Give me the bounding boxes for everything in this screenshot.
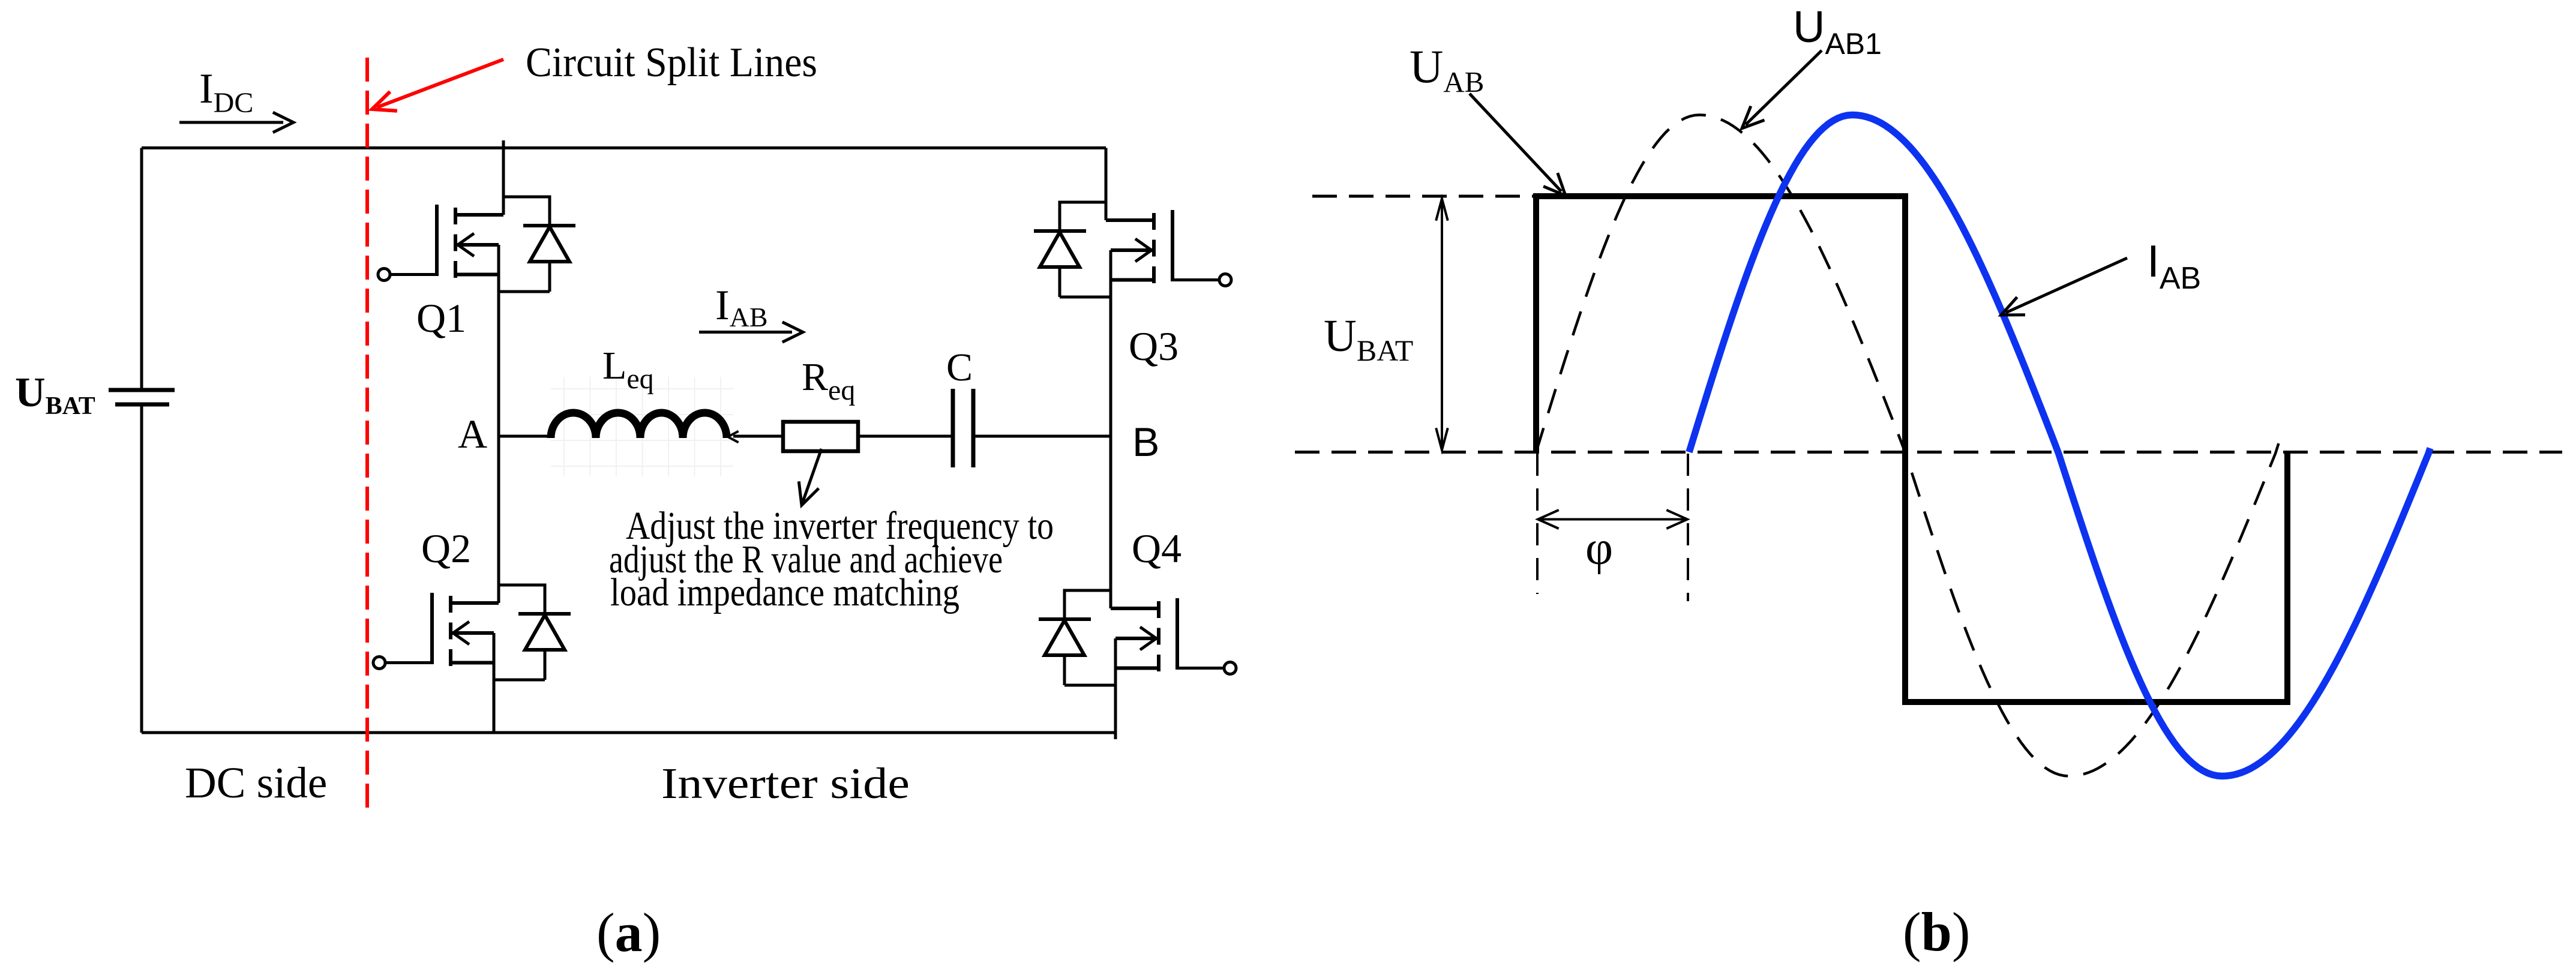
U_BAT measure arrow xyxy=(1441,202,1443,447)
wire top rail xyxy=(142,146,1106,149)
current sine I_AB (blue) xyxy=(1689,115,2430,776)
svg-text:Q4: Q4 xyxy=(1132,526,1181,571)
svg-text:B: B xyxy=(1132,419,1159,465)
svg-text:Circuit Split Lines: Circuit Split Lines xyxy=(526,40,817,86)
svg-text:Q2: Q2 xyxy=(421,526,471,571)
wire inductor to resistor xyxy=(733,435,783,438)
svg-text:(a): (a) xyxy=(596,902,661,963)
svg-text:Q1: Q1 xyxy=(416,295,466,341)
transistor Q3 xyxy=(1034,202,1231,297)
svg-text:A: A xyxy=(458,411,487,457)
horizontal axis (dashed) xyxy=(1295,451,2562,454)
inductor L_eq xyxy=(551,413,727,438)
svg-text:Q3: Q3 xyxy=(1129,323,1178,369)
wire bottom rail xyxy=(142,731,1115,734)
svg-text:Inverter side: Inverter side xyxy=(661,759,910,808)
phi measure arrow xyxy=(1541,518,1684,521)
annotation arrow from resistor xyxy=(803,449,821,502)
I_AB callout arrow xyxy=(2006,258,2127,313)
wire left vertical (battery branch) xyxy=(140,148,143,733)
wire resistor to capacitor xyxy=(858,435,953,438)
capacitor C xyxy=(953,389,973,467)
svg-text:C: C xyxy=(946,346,973,389)
faint grid behind inductor xyxy=(551,377,733,476)
square wave U_AB xyxy=(1536,196,2287,702)
wire capacitor to node B xyxy=(973,435,1111,438)
U_AB callout arrow xyxy=(1470,94,1561,191)
battery U_BAT xyxy=(109,390,175,404)
transistor Q1 xyxy=(378,197,575,292)
arrow I_AB (circuit) xyxy=(699,331,792,334)
fundamental sine U_AB1 (dashed) xyxy=(1536,115,2282,776)
U_AB1 callout arrow xyxy=(1746,50,1822,125)
phi dashed verticals xyxy=(1536,454,1539,594)
svg-text:load impedance matching: load impedance matching xyxy=(610,571,959,614)
svg-text:φ: φ xyxy=(1585,522,1613,575)
transistor Q2 xyxy=(373,585,571,680)
node A wire xyxy=(498,435,551,438)
circuit split line (red dashed) xyxy=(365,58,369,816)
arrow I_DC xyxy=(179,121,283,124)
svg-text:DC side: DC side xyxy=(185,758,327,807)
svg-text:(b): (b) xyxy=(1903,901,1970,962)
transistor Q4 xyxy=(1039,590,1236,685)
resistor R_eq xyxy=(783,422,858,451)
red callout arrow xyxy=(377,59,503,107)
top level dashed line xyxy=(1312,195,1536,198)
